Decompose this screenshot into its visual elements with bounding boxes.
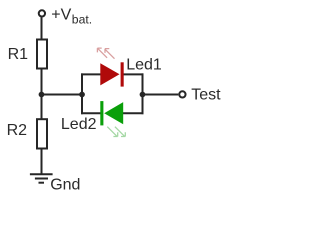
wire node A to node B <box>42 94 83 96</box>
svg-text:Gnd: Gnd <box>50 177 80 194</box>
wire R1 to node A <box>41 69 43 94</box>
svg-text:R1: R1 <box>8 46 29 63</box>
svg-text:Led1: Led1 <box>126 56 162 73</box>
svg-text:Test: Test <box>191 86 221 103</box>
junction node A <box>39 92 45 98</box>
svg-text:bat.: bat. <box>72 12 92 26</box>
wire Led1 cathode to node C <box>123 73 144 75</box>
LED Led1 <box>100 62 123 86</box>
resistor R1 <box>37 40 47 69</box>
svg-text:+V: +V <box>51 6 71 23</box>
wire terminal to R1 <box>41 17 43 38</box>
wire node B to Led1 anode <box>81 73 101 75</box>
svg-text:R2: R2 <box>7 122 28 139</box>
resistor R2 <box>37 119 47 148</box>
label +Vbat <box>51 6 92 26</box>
terminal Test <box>179 91 185 97</box>
ground <box>30 174 53 182</box>
wire node C to Test terminal <box>143 94 179 96</box>
wire Led2 anode to node C <box>123 112 144 114</box>
terminal +Vbat <box>39 10 45 16</box>
LED Led2 <box>100 101 123 125</box>
svg-text:Led2: Led2 <box>61 116 97 133</box>
wire node B to Led2 cathode <box>81 112 101 114</box>
wire right branch riser <box>142 73 144 114</box>
wire R2 to ground <box>41 150 43 175</box>
Led2 light arrows <box>107 127 125 137</box>
wire left branch riser <box>81 73 83 114</box>
Led1 light arrows <box>97 48 114 59</box>
junction node C <box>140 92 146 98</box>
junction node B <box>79 92 85 98</box>
wire node A to R2 <box>41 95 43 120</box>
